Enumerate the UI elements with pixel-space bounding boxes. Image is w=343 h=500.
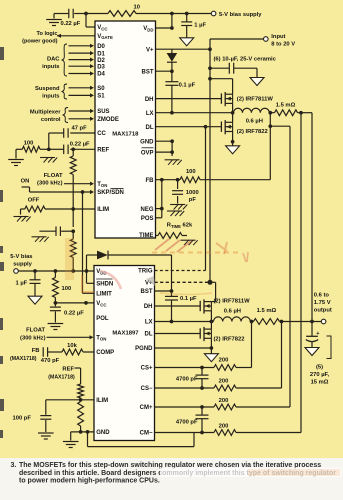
svg-text:FLOAT: FLOAT bbox=[26, 327, 45, 333]
svg-text:10: 10 bbox=[134, 5, 140, 11]
pin COMP bbox=[96, 350, 114, 356]
bracket output caps bbox=[327, 336, 332, 359]
pin VDD (MAX1897) bbox=[96, 269, 106, 275]
svg-text:VCC: VCC bbox=[96, 301, 106, 307]
capacitor 0.22uF (MAX1897) bbox=[50, 303, 61, 323]
label 1000 pF bbox=[186, 190, 199, 203]
svg-text:BST: BST bbox=[142, 69, 154, 75]
wire TRIG row (dashed) bbox=[155, 270, 206, 272]
svg-text:LIMIT: LIMIT bbox=[96, 292, 112, 298]
label 100 (FB) bbox=[186, 169, 196, 175]
wire L2 to sense2 bbox=[250, 321, 253, 323]
inductor L1 0.6uH bbox=[234, 108, 270, 112]
node ceramic cap junction bbox=[208, 66, 212, 70]
label 4700 pF (CM) bbox=[176, 419, 198, 425]
ground (3-bar) 100 res bbox=[8, 160, 24, 166]
svg-text:100: 100 bbox=[62, 286, 72, 292]
label OFF bbox=[28, 197, 40, 203]
label 0.6 uH (top) bbox=[246, 118, 263, 124]
svg-text:200: 200 bbox=[219, 398, 229, 404]
wire FB row bbox=[156, 179, 271, 181]
label (5) 270uF 15mohm bbox=[310, 364, 330, 385]
svg-text:(MAX1718): (MAX1718) bbox=[48, 374, 75, 380]
svg-text:0.6 µH: 0.6 µH bbox=[224, 309, 241, 315]
svg-text:1000: 1000 bbox=[186, 190, 199, 196]
node CM- cap junction bbox=[200, 431, 204, 435]
label 200 (CM+) bbox=[219, 398, 229, 404]
transistor Q2 (2) IRF7822 (top) bbox=[221, 120, 232, 134]
resistor R 200 CS- bbox=[214, 385, 236, 391]
label 0.1 uF (bottom) bbox=[180, 296, 197, 302]
svg-text:ILIM: ILIM bbox=[96, 398, 108, 404]
wire CM+ vertical bbox=[270, 113, 290, 407]
wire SKP/SDN row bbox=[30, 190, 95, 194]
pin DH (MAX1718) bbox=[145, 97, 154, 103]
node 1uF junction (bottom) bbox=[33, 269, 37, 273]
pin POL bbox=[96, 316, 109, 322]
ground (hatched) divider cap bbox=[32, 237, 49, 242]
pin CS+ bbox=[141, 366, 153, 372]
label (6) 10uF 25V ceramic bbox=[214, 57, 277, 63]
wire 5V rail top bbox=[86, 13, 211, 15]
svg-text:POL: POL bbox=[96, 316, 109, 322]
ground (hatched) GND/OVP bbox=[165, 160, 182, 165]
wire ILIM row (MAX1897) bbox=[46, 398, 94, 402]
pin D1 bbox=[97, 51, 105, 57]
pin LX (MAX1897) bbox=[145, 320, 153, 326]
svg-text:8 to 20 V: 8 to 20 V bbox=[271, 42, 295, 48]
pin CM- bbox=[140, 431, 153, 437]
svg-text:LX: LX bbox=[146, 111, 154, 117]
svg-text:FB: FB bbox=[146, 178, 155, 184]
ground (3-bar) 0.22uF MAX1897 bbox=[48, 324, 64, 330]
label 5-V bias supply bbox=[219, 12, 262, 18]
svg-text:PGND: PGND bbox=[135, 346, 153, 352]
svg-text:CS+: CS+ bbox=[141, 366, 153, 372]
label 0.22 uF (MAX1897) bbox=[64, 310, 84, 316]
label Suspend inputs bbox=[35, 86, 60, 100]
node LX junction bbox=[231, 111, 235, 115]
label 1.5 mohm (bottom) bbox=[257, 308, 277, 314]
svg-text:FB: FB bbox=[32, 348, 40, 354]
pin TIME bbox=[139, 233, 153, 239]
pin VGATE bbox=[97, 34, 113, 40]
wire TON stub (MAX1897) bbox=[47, 335, 94, 339]
svg-text:(6) 10-µF, 25-V ceramic: (6) 10-µF, 25-V ceramic bbox=[214, 57, 277, 63]
wire VGATE to logic bbox=[57, 35, 95, 37]
svg-text:MAX1718: MAX1718 bbox=[112, 131, 139, 137]
capacitor output (5) 270uF bbox=[306, 322, 318, 348]
svg-text:TON: TON bbox=[97, 182, 107, 188]
wire CM- vertical bbox=[300, 113, 302, 433]
terminal output bbox=[321, 319, 326, 324]
capacitor 0.22uF REF bbox=[49, 145, 95, 155]
brace multiplexer bbox=[63, 108, 69, 123]
svg-text:(2) IRF7822: (2) IRF7822 bbox=[237, 129, 268, 135]
brace DAC inputs bbox=[62, 44, 68, 76]
wire OVP row bbox=[156, 141, 173, 156]
pin BST (MAX1897) bbox=[141, 289, 153, 295]
wires SUS ZMODE multiplexer bbox=[69, 109, 95, 121]
wire GND row (MAX1718) bbox=[156, 140, 173, 142]
capacitor 470pF bbox=[43, 347, 62, 357]
wire Q2 source bbox=[232, 132, 234, 146]
svg-text:VDD: VDD bbox=[143, 26, 153, 32]
svg-text:TIME: TIME bbox=[139, 233, 153, 239]
resistor R FB 100 bbox=[180, 177, 200, 183]
svg-text:S0: S0 bbox=[97, 86, 105, 92]
svg-text:0.1 µF: 0.1 µF bbox=[180, 296, 197, 302]
svg-text:to power modern high-performan: to power modern high-performance CPUs. bbox=[19, 478, 160, 485]
label 100 (MAX1897) bbox=[62, 286, 72, 292]
wire TRIG vertical bbox=[205, 127, 207, 271]
pin D3 bbox=[97, 64, 105, 70]
node 100 res junction bbox=[54, 269, 58, 273]
svg-text:OFF: OFF bbox=[28, 197, 40, 203]
resistor R 200 CM+ bbox=[214, 404, 236, 410]
svg-text:D1: D1 bbox=[97, 51, 105, 57]
pin POS bbox=[141, 216, 154, 222]
svg-text:0.6 µH: 0.6 µH bbox=[246, 118, 263, 124]
wire SHDN drop bbox=[87, 271, 95, 283]
pin VCC bbox=[97, 25, 107, 31]
wire BST row bbox=[156, 70, 172, 72]
svg-text:POS: POS bbox=[141, 216, 154, 222]
switch ON/OFF bbox=[22, 187, 30, 192]
wire VCC row (MAX1897) bbox=[55, 302, 94, 304]
node VCC row second bbox=[84, 301, 88, 305]
node LX junction (MAX1897) bbox=[210, 320, 214, 324]
svg-text:pF: pF bbox=[189, 197, 197, 203]
label 4700 pF (CS) bbox=[176, 377, 198, 383]
resistor R divider upper bbox=[70, 156, 76, 175]
wire Q4 drain to LX bbox=[210, 322, 212, 330]
label (2) IRF7811W (bottom) bbox=[214, 298, 251, 304]
svg-text:REF: REF bbox=[62, 367, 74, 373]
wire Q2 drain to LX bbox=[232, 113, 234, 123]
caption watermark overlay bbox=[160, 468, 341, 478]
transistor Q4 (2) IRF7822 (bottom) bbox=[200, 327, 211, 341]
wire output row bbox=[280, 321, 322, 323]
svg-text:1.75 V: 1.75 V bbox=[314, 300, 331, 306]
svg-text:Suspend: Suspend bbox=[35, 86, 60, 92]
ground (3-bar) for VCC cap bbox=[46, 20, 62, 26]
node REF junction bbox=[71, 147, 75, 151]
label 10 bbox=[134, 5, 140, 11]
capacitor 4700pF CM bbox=[196, 407, 209, 433]
svg-text:(2) IRF7822: (2) IRF7822 bbox=[214, 337, 245, 343]
node V+ rail junction (big) bbox=[208, 280, 213, 285]
wire TON stub (MAX1718) bbox=[64, 182, 94, 186]
wire VDD vertical bbox=[156, 14, 172, 29]
svg-text:(power good): (power good) bbox=[22, 38, 58, 44]
svg-text:Multiplexer: Multiplexer bbox=[30, 109, 61, 115]
label 470 pF bbox=[41, 358, 60, 364]
svg-text:To logic: To logic bbox=[36, 31, 57, 37]
svg-text:ZMODE: ZMODE bbox=[97, 117, 119, 123]
node VCC row junction (MAX1897) bbox=[54, 301, 58, 305]
pin CM+ bbox=[140, 405, 153, 411]
svg-text:(300 kHz): (300 kHz) bbox=[20, 336, 46, 342]
label RTIME 62k bbox=[167, 223, 193, 229]
wire GND row (MAX1897) bbox=[71, 432, 94, 441]
svg-text:S1: S1 bbox=[97, 94, 105, 100]
node L1-sense junction bbox=[268, 111, 272, 115]
label 200 (CS+) bbox=[219, 358, 229, 364]
svg-text:MAX1897: MAX1897 bbox=[112, 330, 139, 336]
svg-text:1 µF: 1 µF bbox=[194, 23, 206, 29]
wire CS+ row bbox=[155, 367, 252, 369]
svg-text:DL: DL bbox=[145, 332, 153, 338]
node divider cap junction bbox=[71, 229, 75, 233]
svg-text:GND: GND bbox=[96, 430, 110, 436]
svg-text:RTIME 62k: RTIME 62k bbox=[167, 223, 193, 229]
ground (hatched) TIME bbox=[181, 240, 198, 245]
svg-text:0.22 µF: 0.22 µF bbox=[61, 21, 81, 27]
svg-text:COMP: COMP bbox=[96, 350, 114, 356]
svg-text:SKP/SDN: SKP/SDN bbox=[97, 190, 124, 196]
node BST junction bbox=[170, 69, 174, 73]
pin VCC (MAX1897) bbox=[96, 301, 106, 307]
pin LX (MAX1718) bbox=[146, 111, 154, 117]
pin SHDN bbox=[96, 279, 113, 288]
wire input rail bbox=[210, 39, 264, 282]
wire DH row (MAX1718) bbox=[156, 98, 222, 100]
ground (hatched) NEG bbox=[167, 211, 184, 216]
wire GND bottom route bbox=[88, 432, 195, 447]
ground (hatched) 1000pF bbox=[170, 205, 187, 210]
svg-text:CM+: CM+ bbox=[140, 405, 153, 411]
pin BST (MAX1718) bbox=[142, 69, 154, 75]
node SKP junction bbox=[81, 190, 85, 194]
node VDD pin junction bbox=[170, 26, 174, 30]
capacitor 0.22uF VCC bypass bbox=[54, 9, 86, 19]
inductor L2 0.6uH bbox=[214, 317, 251, 322]
pin SKP/SDN bbox=[97, 189, 124, 197]
wire L1 to sense bbox=[269, 112, 274, 114]
svg-text:4700 pF: 4700 pF bbox=[176, 377, 198, 383]
wire LX row (MAX1897) bbox=[155, 321, 214, 323]
node GND junction bbox=[170, 139, 174, 143]
wire diode anode branch bbox=[87, 255, 98, 271]
svg-text:FLOAT: FLOAT bbox=[44, 173, 63, 179]
wire V+ row (dashed) bbox=[155, 281, 211, 283]
svg-text:REF: REF bbox=[97, 148, 109, 154]
svg-text:47 pF: 47 pF bbox=[72, 125, 88, 131]
wires S0 S1 suspend inputs bbox=[69, 86, 95, 98]
node sense2 right bbox=[280, 320, 284, 324]
pin PGND bbox=[135, 346, 153, 352]
svg-text:DAC: DAC bbox=[47, 56, 60, 62]
svg-text:15 mΩ: 15 mΩ bbox=[311, 379, 329, 385]
svg-text:TRIG: TRIG bbox=[138, 269, 153, 275]
node divider bottom T bbox=[71, 269, 75, 273]
svg-text:200: 200 bbox=[219, 424, 229, 430]
pin ZMODE bbox=[97, 117, 119, 123]
wire DL row (MAX1897) bbox=[155, 333, 201, 335]
label FB MAX1718 bbox=[10, 348, 40, 362]
resistor R TIME bbox=[158, 233, 182, 239]
node BST2 cap bottom bbox=[170, 320, 174, 324]
wire sense1 to out drop bbox=[298, 113, 313, 322]
wire 100 res ends bbox=[16, 149, 49, 158]
svg-text:0.6 to: 0.6 to bbox=[314, 292, 330, 298]
svg-text:(2) IRF7811W: (2) IRF7811W bbox=[237, 97, 274, 103]
pin D4 bbox=[97, 72, 105, 78]
wire TIME row bbox=[156, 235, 188, 237]
ground (triangle) Q4 source bbox=[204, 354, 218, 362]
transistor Q3 (2) IRF7811W bbox=[200, 299, 211, 313]
pin V+ (MAX1718) bbox=[146, 47, 154, 53]
node output junction bbox=[310, 320, 314, 324]
label ON bbox=[21, 179, 30, 185]
wire DL row (MAX1718) bbox=[156, 126, 222, 128]
svg-text:ILIM: ILIM bbox=[97, 207, 109, 213]
svg-text:CM−: CM− bbox=[140, 431, 153, 437]
wire CM- row bbox=[155, 432, 302, 434]
svg-text:D2: D2 bbox=[97, 58, 105, 64]
ground (triangle) output cap bbox=[305, 348, 319, 356]
wire BST row (MAX1897) bbox=[155, 290, 172, 292]
capacitor 4700pF CS bbox=[196, 368, 209, 389]
node rail-1uF junction bbox=[185, 12, 189, 16]
wire CS+ vertical bbox=[251, 322, 253, 368]
node Q2 source bbox=[231, 140, 235, 144]
svg-text:1 µF: 1 µF bbox=[16, 281, 28, 287]
svg-text:4700 pF: 4700 pF bbox=[176, 419, 198, 425]
svg-text:inputs: inputs bbox=[42, 94, 59, 100]
wires D0-D4 DAC inputs bbox=[69, 44, 95, 76]
svg-text:VCC: VCC bbox=[97, 25, 107, 31]
wire PGND row bbox=[155, 347, 212, 349]
svg-text:supply: supply bbox=[13, 261, 32, 267]
node sense1 right bbox=[299, 111, 303, 115]
terminal Input 8-20V bbox=[264, 37, 269, 42]
pin DL (MAX1897) bbox=[145, 332, 153, 338]
terminal 5-V bias supply (bottom) bbox=[14, 269, 19, 274]
svg-text:0.22 µF: 0.22 µF bbox=[70, 142, 90, 148]
svg-text:270 µF,: 270 µF, bbox=[310, 372, 330, 378]
label 0.22 uF (REF) bbox=[70, 142, 90, 148]
svg-text:VGATE: VGATE bbox=[97, 34, 113, 40]
label (2) IRF7822 (bottom) bbox=[214, 337, 245, 343]
label REF MAX1718 bbox=[48, 367, 75, 381]
pin TON (MAX1897) bbox=[96, 336, 106, 342]
label Input bbox=[271, 34, 295, 48]
node V+ input rail bbox=[208, 47, 212, 51]
node Q4 source / PGND bbox=[210, 346, 214, 350]
brace suspend bbox=[62, 84, 68, 99]
wire ILIM row (MAX1718) bbox=[21, 209, 96, 215]
resistor R ILIM upper (MAX1897) bbox=[78, 384, 84, 398]
resistor R 200 CM- bbox=[214, 430, 236, 436]
watermark red strokes bbox=[65, 238, 248, 295]
svg-text:control: control bbox=[41, 117, 61, 123]
pin CC bbox=[97, 131, 106, 137]
wire CS- vertical bbox=[281, 322, 283, 389]
node CM+ cap junction bbox=[200, 405, 204, 409]
node GND junction 1 (MAX1897) bbox=[79, 430, 83, 434]
svg-text:ON: ON bbox=[21, 179, 30, 185]
wire V+ row bbox=[156, 48, 211, 50]
pin SUS bbox=[97, 109, 109, 115]
node diode branch bbox=[85, 269, 89, 273]
pin REF bbox=[97, 148, 109, 154]
wire VCC drop bbox=[86, 14, 95, 28]
IC U1 MAX1718 box bbox=[95, 21, 156, 238]
svg-text:470 pF: 470 pF bbox=[41, 358, 60, 364]
svg-text:DH: DH bbox=[145, 97, 154, 103]
wire FB sense vertical bbox=[269, 126, 271, 180]
page edge marks bbox=[0, 47, 4, 438]
node BST junction (MAX1897) bbox=[170, 289, 174, 293]
svg-text:GND: GND bbox=[140, 139, 154, 145]
svg-text:D3: D3 bbox=[97, 64, 105, 70]
label 1 uF (bottom) bbox=[16, 281, 28, 287]
pin FB (MAX1718) bbox=[146, 178, 155, 184]
capacitor 1000pF FB bbox=[172, 180, 183, 204]
pin DL (MAX1718) bbox=[146, 125, 154, 131]
capacitor 47pF CC bbox=[49, 128, 95, 149]
node NEG junction bbox=[160, 207, 164, 211]
resistor R divider lower bbox=[70, 239, 76, 258]
node Q1 drain branch bbox=[208, 77, 212, 81]
svg-text:CC: CC bbox=[97, 131, 106, 137]
pin LIMIT bbox=[96, 292, 112, 298]
wire V+/BST vertical bbox=[171, 49, 173, 112]
diode D1 (V+ to BST) bbox=[167, 53, 178, 62]
svg-text:0.1 µF: 0.1 µF bbox=[179, 83, 196, 89]
node ILIM junction (MAX1718) bbox=[71, 207, 75, 211]
svg-text:5-V bias: 5-V bias bbox=[10, 254, 32, 260]
label Multiplexer control bbox=[30, 109, 61, 123]
wire Q1 drain bbox=[210, 79, 233, 95]
label FLOAT 300kHz (bottom) bbox=[20, 327, 46, 341]
label FLOAT 300kHz (top) bbox=[37, 173, 63, 187]
node CM+ tap junction bbox=[268, 124, 272, 128]
ground (hatched) ILIM bbox=[14, 217, 31, 222]
pin ILIM (MAX1718) bbox=[97, 207, 109, 213]
pin GND (MAX1897) bbox=[96, 430, 110, 436]
label 100 pF bbox=[13, 415, 32, 421]
pin ILIM (MAX1897) bbox=[96, 398, 108, 404]
svg-text:SUS: SUS bbox=[97, 109, 109, 115]
resistor R 200 CS+ bbox=[214, 365, 236, 371]
svg-text:TON: TON bbox=[96, 336, 106, 342]
wire Q1 source to LX bbox=[232, 103, 234, 112]
label 47 pF bbox=[72, 125, 88, 131]
label 200 (CS-) bbox=[219, 379, 229, 385]
transistor Q1 (2) IRF7811W bbox=[221, 92, 232, 106]
label MAX1897 bbox=[112, 330, 139, 336]
wire LX row (MAX1718) bbox=[156, 112, 234, 114]
svg-text:BST: BST bbox=[141, 289, 153, 295]
capacitor divider bypass bbox=[39, 226, 73, 236]
label 0.6 uH (bottom) bbox=[224, 309, 241, 315]
node GND junction 2 (MAX1897) bbox=[86, 430, 90, 434]
resistor R sense1 1.5mohm bbox=[275, 110, 298, 116]
svg-text:SHDN: SHDN bbox=[96, 282, 113, 288]
resistor R 10 ohm bbox=[108, 11, 136, 17]
ground (hatched) CC/REF node bbox=[40, 158, 57, 163]
node DL-TRIG junction bbox=[204, 125, 208, 129]
svg-text:CS−: CS− bbox=[141, 386, 153, 392]
svg-text:200: 200 bbox=[219, 358, 229, 364]
svg-text:(300 kHz): (300 kHz) bbox=[37, 181, 63, 187]
node BST cap bottom bbox=[170, 111, 174, 115]
wire COMP row bbox=[83, 351, 94, 353]
node OVP junction bbox=[170, 150, 174, 154]
